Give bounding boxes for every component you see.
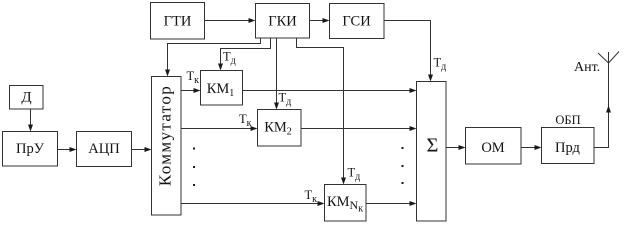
arrowhead into GKI (249, 18, 256, 23)
svg-text:ГТИ: ГТИ (164, 14, 192, 30)
wire GKI to KMNk top (Td) (297, 38, 344, 178)
arrowhead up on antenna feed (606, 106, 611, 113)
svg-text:ГСИ: ГСИ (342, 14, 371, 30)
svg-text:Прд: Прд (555, 140, 581, 156)
wire GTI to GKI (205, 20, 250, 22)
block Sigma rect (417, 82, 447, 222)
wire KM1 to Sigma (243, 90, 411, 92)
block Kommutator rect (152, 77, 182, 216)
svg-text:КМ1: КМ1 (207, 81, 235, 99)
wire KM2 to Sigma (301, 128, 410, 130)
block GTI (ГТИ) rect (151, 3, 205, 40)
wire Kommutator to KMNk (Tk) (181, 203, 318, 205)
arrowhead into Kommutator left (145, 147, 152, 152)
wire GKI to KM1 top (Td) (221, 38, 271, 64)
arrowhead into Sigma y203 (410, 201, 417, 206)
wire Kommutator to KM1 (Tk) (181, 90, 194, 92)
arrowhead into KMNk top (341, 178, 346, 185)
svg-text:Тд: Тд (279, 91, 292, 108)
arrowhead into KM2 left (251, 126, 258, 131)
arrowhead into KM2 top (274, 103, 279, 110)
arrowhead into ADC (70, 147, 77, 152)
wire GKI to GSI (310, 20, 324, 22)
arrowhead into KM1 left (194, 88, 201, 93)
arrowhead into GSI (323, 18, 330, 23)
block KM2 rect (258, 110, 302, 147)
svg-text:АЦП: АЦП (88, 141, 120, 157)
arrowhead into Sigma top (428, 75, 433, 82)
svg-text:Ант.: Ант. (574, 60, 600, 75)
arrowhead into Sigma y128 (410, 126, 417, 131)
svg-text:Д: Д (21, 90, 31, 106)
svg-text:ГКИ: ГКИ (268, 14, 297, 30)
svg-text:Тк: Тк (305, 188, 318, 205)
svg-text:КМNк: КМNк (327, 194, 363, 215)
arrowhead into Prd (535, 145, 542, 150)
block ADC (АЦП) rect (77, 132, 132, 167)
wire ADC to Kommutator (132, 149, 146, 151)
svg-text:ОБП: ОБП (555, 113, 580, 127)
arrowhead into PrU top (28, 125, 33, 132)
block KM1 rect (201, 71, 243, 106)
block GSI (ГСИ) rect (330, 4, 385, 39)
arrowhead into OM (459, 145, 466, 150)
wire KMNk to Sigma (366, 203, 410, 205)
wire OM to Prd (521, 147, 535, 149)
ellipsis dots between Kommutator outputs (193, 148, 195, 150)
arrowhead into KM1 top (218, 64, 223, 71)
wire PrU to ADC (58, 149, 71, 151)
arrowhead into Kommutator top (165, 70, 170, 77)
block KMNk rect (325, 185, 367, 222)
svg-text:Тк: Тк (239, 112, 252, 129)
arrowhead into KMNk left (318, 201, 325, 206)
block GKI (ГКИ) rect (256, 4, 310, 39)
wire GKI to Kommutator top (168, 38, 261, 70)
svg-text:Коммутатор: Коммутатор (156, 85, 175, 186)
antenna symbol (608, 52, 610, 63)
svg-text:ПрУ: ПрУ (16, 141, 45, 157)
block PrU (ПрУ) rect (3, 132, 58, 167)
svg-text:Тд: Тд (434, 56, 447, 73)
wire Kommutator to KM2 (Tk) (181, 128, 251, 130)
ellipsis dots before Sigma inputs (402, 147, 404, 149)
wire GKI to KM2 top (Td) (276, 38, 278, 103)
svg-text:Σ: Σ (427, 135, 439, 157)
wire D to PrU (30, 109, 32, 125)
block D (Д) rect (10, 86, 44, 110)
wire GSI to Sigma top (Td) (384, 21, 431, 75)
svg-text:Тд: Тд (348, 166, 361, 183)
svg-text:КМ2: КМ2 (264, 120, 292, 138)
svg-text:Тд: Тд (223, 50, 236, 67)
svg-text:ОМ: ОМ (481, 140, 504, 156)
block OM (ОМ) rect (466, 128, 522, 165)
wire Sigma to OM (446, 147, 459, 149)
arrowhead into Sigma y90 (410, 88, 417, 93)
block Prd (Прд) rect (542, 128, 595, 164)
wire Prd to antenna (594, 63, 609, 148)
svg-text:Тк: Тк (187, 69, 200, 86)
